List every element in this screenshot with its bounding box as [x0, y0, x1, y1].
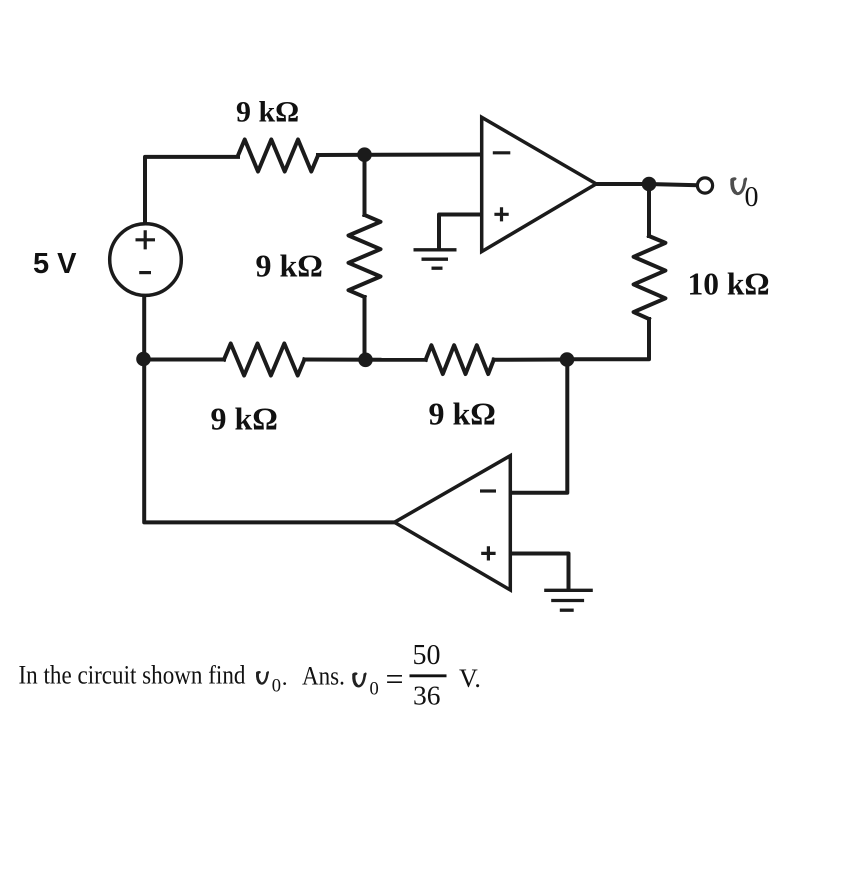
wire bottom rail left segment — [144, 358, 224, 362]
caption v0 symbol — [256, 671, 269, 684]
wire bottom rail middle segment — [304, 358, 425, 362]
wire U1 output to node B — [596, 182, 649, 186]
wire top rail to op-amp U1 minus input — [318, 153, 482, 158]
caption: problem text — [19, 661, 246, 690]
resistor R3 9k bottom-left zigzag — [224, 344, 304, 376]
U2 minus sign — [480, 489, 496, 492]
caption Ans. — [302, 662, 345, 691]
resistor R1 9k top zigzag — [238, 140, 318, 172]
svg-text:0: 0 — [272, 677, 281, 697]
svg-text:Ans.: Ans. — [302, 662, 345, 691]
svg-text:5 V: 5 V — [33, 248, 77, 280]
label vo terminal (script upsilon) — [730, 177, 747, 194]
svg-text:=: = — [386, 661, 404, 697]
svg-text:V.: V. — [459, 664, 481, 693]
op-amp U1 (top, pointing right) — [482, 117, 597, 251]
wire R5 bottom to right node C — [567, 319, 649, 359]
U1 plus sign — [494, 207, 508, 221]
svg-text:36: 36 — [413, 680, 441, 711]
node E junction dot (bottom middle) — [358, 353, 373, 368]
svg-text:0: 0 — [745, 182, 759, 213]
svg-text:10 kΩ: 10 kΩ — [688, 267, 770, 302]
svg-text:9 kΩ: 9 kΩ — [211, 401, 278, 437]
svg-text:50: 50 — [413, 640, 441, 671]
ground symbol G1 (U1 plus input) — [414, 250, 457, 268]
node C junction dot (bottom right) — [560, 352, 575, 367]
resistor R5 10k vertical zigzag — [634, 236, 666, 319]
svg-text:In the circuit shown find: In the circuit shown find — [19, 661, 246, 690]
node D junction dot (bottom-left) — [136, 352, 151, 367]
wire node C down to U2 minus input — [510, 360, 567, 493]
wire U1 plus input to ground stem — [439, 215, 482, 250]
ground symbol G2 (U2 plus input) — [544, 590, 593, 610]
wire node B to terminal vo — [649, 184, 697, 185]
voltage source V1 5V — [110, 224, 182, 296]
wire bottom rail right segment to node C — [494, 358, 567, 362]
resistor R4 9k bottom-right zigzag — [426, 345, 494, 374]
svg-text:9 kΩ: 9 kΩ — [236, 96, 299, 129]
op-amp U2 (bottom, pointing left) — [394, 456, 510, 590]
terminal vo open circle — [697, 178, 712, 193]
wire source minus terminal down to output rail of U2 — [144, 296, 394, 523]
caption v0 symbol 2 — [352, 672, 366, 686]
U2 plus sign — [481, 546, 495, 560]
node A junction dot (top rail / middle branch) — [357, 147, 372, 162]
wire U2 plus input to ground stem — [510, 554, 568, 590]
svg-text:0: 0 — [370, 680, 379, 700]
svg-text:9 kΩ: 9 kΩ — [256, 248, 323, 284]
U1 minus sign — [493, 151, 511, 154]
node B junction dot (U1 output) — [642, 177, 657, 192]
svg-text:.: . — [282, 665, 288, 691]
resistor R2 9k middle vertical zigzag — [349, 215, 381, 297]
wire left-top from source to top rail — [145, 157, 238, 224]
wire middle branch to bottom rail — [363, 297, 367, 360]
svg-text:9 kΩ: 9 kΩ — [429, 396, 496, 432]
wire node B down to resistor R5 — [647, 184, 651, 236]
wire middle branch down from node A — [363, 155, 367, 216]
